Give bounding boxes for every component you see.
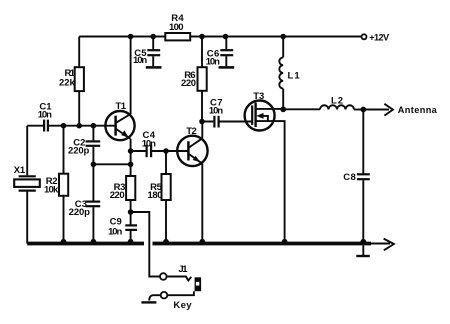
node rail-C6 (223, 34, 229, 40)
svg-text:10n: 10n (206, 56, 220, 67)
wire rail to R6 (201, 37, 203, 68)
svg-text:100: 100 (169, 22, 184, 33)
wire C7 link (202, 121, 252, 123)
node T2 collector-C7 (199, 119, 205, 125)
node drain-L1 (280, 106, 286, 112)
wire C3 to bus (92, 207, 94, 243)
wire R5 branch (165, 151, 167, 174)
wire R1 to base line (78, 91, 80, 126)
transistor T2 (177, 136, 207, 166)
antenna arrow (384, 104, 393, 116)
node bus-R2 (61, 239, 67, 245)
node C4-R5 (163, 148, 169, 154)
wire R2 to bus (63, 196, 65, 244)
node base-R2 (61, 123, 67, 129)
svg-text:10n: 10n (133, 55, 147, 66)
node bus-R5 (163, 239, 169, 245)
ground under C5 (146, 66, 162, 69)
svg-text:J1: J1 (178, 264, 188, 275)
wire T2 collector (201, 122, 203, 139)
capacitor C9 (125, 224, 137, 226)
wire C8 branch (362, 110, 364, 174)
jack J1 sleeve contact (161, 292, 168, 299)
svg-text:L2: L2 (331, 95, 343, 106)
node base-C2 (91, 123, 97, 129)
capacitor C6 (225, 37, 227, 50)
svg-text:10k: 10k (44, 184, 59, 195)
capacitor C3 (86, 201, 101, 203)
wire rail to L1 (282, 37, 284, 58)
node rail-L1 (280, 34, 286, 40)
resistor R4 (165, 33, 190, 40)
resistor R1 (75, 67, 84, 91)
svg-text:L1: L1 (288, 70, 301, 81)
wire X1 to bus (26, 192, 28, 244)
node C2-C3 midpoint (91, 162, 97, 168)
svg-text:10n: 10n (142, 139, 156, 150)
wire key branch (131, 212, 160, 277)
svg-text:10n: 10n (108, 226, 122, 237)
wire C9 to bus (130, 231, 132, 244)
svg-text:220: 220 (181, 78, 196, 89)
wire T1 emitter down (130, 139, 132, 176)
wire T2 emitter to bus (201, 164, 203, 244)
wire C2 branch (92, 126, 94, 141)
wire X1 left branch (26, 126, 28, 176)
bus arrow (384, 239, 394, 251)
svg-text:220p: 220p (68, 146, 89, 157)
node bus-C8 (360, 239, 366, 245)
node bus-T3 source (282, 239, 288, 245)
wire T1 collector vertical (130, 37, 132, 115)
node rail-R6 (199, 34, 205, 40)
svg-text:T1: T1 (116, 101, 127, 112)
wire R6 to T2 collector node (201, 91, 203, 122)
capacitor C4 (146, 145, 148, 157)
ground bus (27, 242, 371, 246)
wire sleeve to ground (149, 295, 161, 300)
capacitor C8 (357, 173, 370, 175)
wire R2 branch (63, 126, 65, 174)
node rail-T1 collector (128, 34, 134, 40)
resistor R6 (198, 67, 207, 91)
wire base line left (27, 125, 43, 127)
wire top rail (79, 36, 361, 38)
resistor R2 (59, 174, 68, 196)
resistor R5 (162, 174, 171, 200)
inductor L2 (320, 105, 354, 109)
wire midpoint to emitter line (93, 163, 130, 165)
node antenna-C8 (360, 107, 366, 113)
jack J1 tip contact (160, 273, 167, 280)
node R3-C9-key (128, 209, 134, 215)
inductor L1 (279, 57, 283, 88)
node emitter-C2C3 (128, 162, 134, 168)
svg-text:22k: 22k (59, 77, 76, 88)
wire R3 to C9 node (130, 200, 132, 225)
svg-text:180: 180 (148, 190, 163, 201)
terminal +12V (362, 34, 367, 39)
wire antenna lead (363, 109, 389, 111)
svg-text:+12V: +12V (369, 33, 390, 43)
wire C2 to midpoint node (92, 147, 94, 201)
capacitor C2 (86, 140, 101, 142)
wire L1 to drain node (282, 89, 284, 110)
svg-text:10n: 10n (38, 109, 52, 120)
node rail-C5 (150, 34, 156, 40)
wire L2 to antenna node (354, 109, 363, 111)
wire C8 to bus (362, 180, 364, 243)
transistor T3 mosfet (245, 101, 275, 131)
svg-text:X1: X1 (14, 165, 26, 176)
wire C4 link (131, 150, 189, 152)
wire R5 to bus (165, 200, 167, 244)
transistor T1 (105, 111, 134, 140)
capacitor C5 (152, 37, 154, 50)
jack J1 plug body (195, 277, 202, 291)
svg-text:Key: Key (173, 300, 192, 311)
ground under C6 (219, 66, 235, 69)
svg-text:10n: 10n (209, 106, 223, 117)
svg-text:220: 220 (110, 190, 125, 201)
resistor R3 (126, 176, 135, 200)
svg-text:T2: T2 (186, 126, 197, 137)
wire drain to L2 (283, 108, 320, 110)
svg-text:C8: C8 (343, 172, 356, 183)
node base-R1 (76, 123, 82, 129)
svg-text:Antenna: Antenna (398, 105, 438, 115)
node bus-T2 emitter (199, 239, 205, 245)
svg-text:220p: 220p (69, 207, 90, 218)
node bus-C3 (91, 239, 97, 245)
ground mark under bus at C8 (362, 245, 364, 255)
svg-text:T3: T3 (253, 91, 264, 102)
capacitor C7 (213, 116, 215, 128)
ground key (141, 301, 156, 303)
wire base line to T1 (49, 125, 116, 127)
node emitter-C4 (128, 148, 134, 154)
capacitor C1 (43, 120, 45, 132)
wire R1 drop from rail (78, 37, 80, 68)
crystal X1 (19, 175, 36, 177)
node bus-C9 (128, 239, 134, 245)
